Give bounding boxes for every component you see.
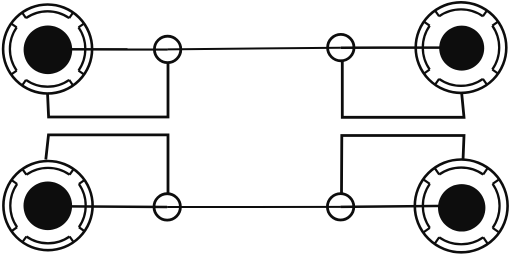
jack socket J2 tip contact disc <box>439 26 484 71</box>
node C junction circle <box>154 194 180 220</box>
jack socket J4 tip contact disc <box>438 184 485 231</box>
jack socket J4 (bottom right) body <box>415 160 508 253</box>
wire: node D top to J4 sleeve <box>342 136 465 195</box>
node D junction circle <box>327 194 353 220</box>
wire: J3 sleeve to node C top <box>46 135 168 194</box>
wire: tip segment node B to J2 <box>341 46 461 49</box>
wire: tip segment node C to node D <box>167 206 340 208</box>
wire: tip segment J3 to node C <box>48 205 167 208</box>
wire: tip segment node D to J4 <box>341 206 462 207</box>
node B junction circle <box>328 34 354 60</box>
jack socket J3 tip contact disc <box>24 182 73 231</box>
jack socket J2 (top right) body <box>416 2 507 93</box>
jack socket J3 (bottom left) body <box>3 161 92 250</box>
wire: tip segment J1 to node A <box>48 48 168 51</box>
jack socket J1 (top left) body <box>3 5 92 94</box>
wire: node B bottom to J2 sleeve <box>342 61 464 118</box>
node A junction circle <box>154 36 180 62</box>
wire: tip segment node A to node B <box>168 48 341 50</box>
jack socket J1 tip contact disc <box>24 26 73 75</box>
wire: J1 sleeve to node A bottom <box>48 63 169 118</box>
